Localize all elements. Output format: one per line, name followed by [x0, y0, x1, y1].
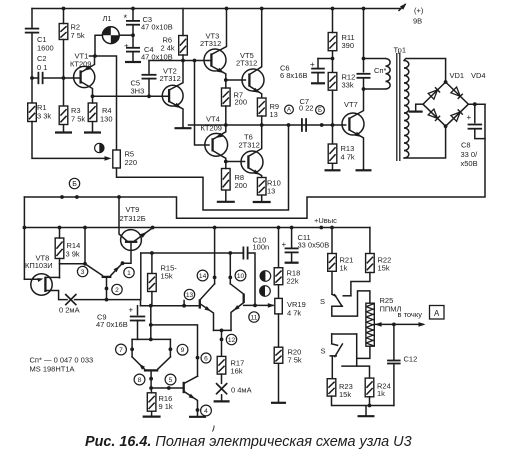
wire R18 to VR19: [278, 285, 280, 299]
junction AB line / lower feedback drop: [287, 123, 291, 127]
node R11/R12/C6: [331, 57, 335, 61]
wire switch2 right drop: [356, 334, 358, 358]
wire VT4 emitter: [213, 125, 226, 140]
svg-text:6: 6: [204, 355, 208, 362]
svg-text:13: 13: [186, 292, 194, 299]
svg-text:VT9: VT9: [126, 205, 140, 214]
junction rail / C11: [290, 226, 294, 230]
junction pin12 marker: [220, 338, 224, 342]
ground R20: [271, 363, 286, 403]
wire C10 net left drop: [140, 253, 142, 300]
transistor T6: [241, 151, 263, 173]
svg-text:Сп*: Сп*: [374, 66, 386, 75]
pin 11: [249, 312, 259, 322]
diode VD1 upper-left: [428, 87, 440, 99]
wire R14 bottom lead: [59, 259, 61, 278]
svg-text:2Т312Б: 2Т312Б: [120, 214, 146, 223]
svg-text:12: 12: [228, 337, 236, 344]
svg-text:22k: 22k: [287, 277, 299, 286]
svg-text:200: 200: [235, 98, 248, 107]
wire R24 bottom lead: [369, 397, 371, 406]
junction C8 top: [473, 102, 477, 106]
pin7 lead: [131, 339, 133, 357]
node label B mid: [316, 106, 325, 115]
pair A right emitter: [231, 303, 244, 331]
wire C3 top lead: [132, 9, 134, 21]
switch1 arm: [335, 295, 342, 307]
svg-text:0 2мА: 0 2мА: [59, 306, 80, 315]
junction rail / R21 dot: [319, 226, 323, 230]
wire C10 net y253: [141, 252, 244, 254]
svg-text:15k: 15k: [161, 272, 173, 281]
wire VT4 collector: [213, 151, 226, 162]
arrowhead pair A right emitter: [233, 305, 239, 311]
wire pin79 top bar: [132, 338, 170, 340]
pair B base bar: [144, 369, 158, 371]
wire R25 wiper out: [375, 323, 423, 325]
wire C3 to C4: [132, 25, 134, 48]
junction pin4 marker: [196, 408, 200, 412]
wire VT3 base lead: [208, 60, 211, 62]
ground output divider: [358, 406, 375, 417]
svg-text:3Н3: 3Н3: [131, 87, 145, 96]
wire R6 bottom lead: [182, 55, 184, 61]
svg-text:КТ209: КТ209: [201, 124, 222, 133]
junction AB line / R13: [331, 123, 335, 127]
trimmer mark near R5: [95, 143, 104, 152]
resistor R20: [274, 347, 283, 363]
arrowhead VT4 emitter PNP: [216, 133, 223, 138]
wire pin13 stub: [183, 301, 185, 306]
junction pin6 marker: [196, 356, 200, 360]
junction C9-drop / bar: [149, 338, 153, 342]
capacitor C9: [130, 317, 145, 321]
wire tank top to primary: [364, 58, 386, 60]
pair VT9a base bar: [102, 276, 112, 278]
junction rail / pin14 drop: [213, 226, 217, 230]
resistor R2: [59, 24, 68, 40]
wire VT2 base: [93, 95, 170, 97]
transformer Tp1 secondary winding: [404, 61, 409, 159]
wire R3 top lead: [63, 78, 65, 106]
arrowhead T6 emitter: [253, 170, 260, 175]
capacitor C1: [25, 29, 39, 33]
wire VT5 base: [226, 79, 246, 81]
ground R13: [325, 163, 341, 170]
wire to pin5 transistor: [151, 387, 184, 389]
svg-text:8: 8: [138, 377, 142, 384]
wire R25 bottom lead: [357, 346, 370, 366]
wire switch2 throw lead: [331, 334, 333, 344]
transistor VT9: [121, 230, 142, 251]
junction ground drop: [368, 404, 372, 408]
transformer Tp1 core: [397, 53, 400, 161]
junction R9-T6 / AB line: [260, 123, 264, 127]
pair A right collector: [230, 284, 243, 294]
svg-text:100n: 100n: [253, 243, 270, 252]
ground R8: [217, 190, 235, 202]
junction R6 / C5 wire: [181, 59, 185, 63]
resistor R17: [217, 356, 226, 374]
svg-text:220: 220: [125, 158, 138, 167]
wire to R24 top: [342, 366, 370, 378]
svg-text:11: 11: [251, 314, 258, 321]
ground VT2 emitter: [175, 127, 192, 129]
junction AB line / R12: [320, 123, 324, 127]
capacitor C5: [142, 75, 157, 79]
svg-text:47 0x10В: 47 0x10В: [141, 23, 173, 32]
svg-text:C12: C12: [404, 355, 418, 364]
pin 9: [177, 344, 188, 355]
wire R7 top lead: [225, 80, 227, 88]
trimmer mark 1: [260, 271, 271, 282]
wire R21 to switch1 pole: [331, 271, 333, 294]
junction C5 / VT2 base: [147, 94, 151, 98]
svg-text:1600: 1600: [37, 44, 54, 53]
transistor pin4-5 base bar: [183, 382, 185, 393]
wire pin2 stub: [106, 277, 108, 300]
wire C12 top lead: [393, 324, 395, 359]
wire VT9 emitter to rail: [135, 228, 153, 241]
junction lamp / C3-C4: [131, 33, 135, 37]
svg-text:13: 13: [270, 110, 278, 119]
svg-text:1: 1: [127, 270, 131, 277]
wire R12 bottom lead: [332, 90, 334, 125]
svg-text:6 8x16В: 6 8x16В: [280, 71, 308, 80]
svg-text:Сп* — 0 047 0 033: Сп* — 0 047 0 033: [30, 356, 94, 365]
junction pin7 marker: [130, 347, 134, 351]
capacitor C12: [387, 361, 401, 364]
junction B wire VT9 collector: [117, 195, 121, 199]
current mark 0.4mA: [216, 383, 227, 394]
wire C11 top lead: [291, 228, 293, 248]
transistor VT1: [74, 66, 95, 87]
capacitor C11: [285, 248, 299, 252]
resistor R11: [328, 33, 337, 51]
pair B right diagonal: [158, 357, 171, 369]
wire VT3 collector: [211, 9, 226, 55]
pin 10: [235, 270, 246, 281]
svg-text:390: 390: [342, 41, 355, 50]
wire pin12 lead: [221, 330, 223, 356]
pin 8: [134, 374, 145, 385]
arrowhead VT5 emitter: [253, 88, 260, 93]
wire VR19 bottom lead: [278, 314, 280, 347]
svg-text:Б: Б: [72, 181, 77, 188]
svg-text:А: А: [434, 309, 440, 318]
wire VT1 emitter node to R5: [90, 56, 117, 150]
transistor VT2: [162, 85, 183, 106]
pin 12: [226, 334, 236, 344]
junction top rail / R11: [331, 7, 335, 11]
wire bias rail y227: [24, 227, 370, 229]
svg-text:Л1: Л1: [103, 14, 112, 23]
diode VD3 lower-left: [428, 109, 440, 121]
wire R11 bottom lead: [332, 51, 334, 59]
pin 6: [201, 353, 211, 363]
junction VT9 base / pin1: [121, 261, 125, 265]
lamp L1: [102, 27, 119, 44]
wire R23-R24-C12 common: [332, 396, 394, 405]
resistor R15: [148, 274, 157, 292]
stray mark: [213, 426, 215, 432]
wire C2 to VT1 base: [43, 77, 81, 79]
svg-text:4 7k: 4 7k: [341, 153, 355, 162]
wire R2 top lead: [63, 9, 65, 24]
wire VT8 gate drop: [23, 197, 25, 279]
diode VD4 lower-right: [451, 109, 463, 121]
pair A left emitter: [200, 304, 214, 331]
wire pin6 link: [151, 325, 198, 376]
pair A left base bar: [199, 299, 201, 308]
wire C5 top lead: [148, 61, 150, 74]
arrowhead R5 wiper: [105, 156, 112, 161]
junction C10 net / pin10 drop: [228, 251, 232, 255]
svg-text:33 0/: 33 0/: [461, 150, 479, 159]
wire VT8 source lead: [45, 276, 59, 278]
wire drop to bar: [150, 306, 152, 340]
wire switch2 pole to R23: [331, 356, 333, 379]
ground C4: [125, 52, 141, 62]
pin 7: [116, 344, 127, 355]
junction wiper / C12: [392, 323, 396, 327]
node VT3 emitter / VT5 base / R7: [224, 78, 228, 82]
wire R1 bottom to R5 wiper: [32, 122, 108, 159]
wire VT3 emitter: [211, 66, 225, 80]
svg-text:4 7k: 4 7k: [287, 309, 301, 318]
junction pin2 / X wire: [105, 298, 109, 302]
wire C12 bottom lead: [393, 364, 395, 406]
arrowhead R25 wiper into body: [375, 322, 382, 327]
junction pin8 marker: [149, 377, 153, 381]
wire C8 bottom lead: [475, 129, 485, 139]
svg-text:x50В: x50В: [461, 159, 478, 168]
resistor R21: [328, 254, 337, 272]
wire secondary bottom to bridge: [404, 126, 446, 158]
junction bridge top vertex: [444, 80, 448, 84]
capacitor Cp: [357, 74, 371, 78]
wire C9 top lead: [137, 306, 139, 315]
wire T6 base: [226, 161, 245, 163]
trimmer mark 2: [260, 286, 271, 297]
junction base-R16 node: [149, 386, 153, 390]
pin1 lead: [111, 263, 123, 275]
VT9 base bar: [125, 241, 137, 243]
pair A left collector: [200, 284, 215, 300]
wire pair B base down: [150, 370, 152, 388]
svg-text:2Т312: 2Т312: [200, 39, 221, 48]
svg-text:(+): (+): [414, 6, 424, 15]
pair B left diagonal: [132, 357, 145, 369]
wire bridge right vertex to C8: [468, 103, 485, 105]
resistor R9: [257, 98, 266, 116]
svg-text:1k: 1k: [377, 389, 385, 398]
transistor VT5: [242, 69, 264, 91]
svg-text:Рис. 16.4. Полная электрическа: Рис. 16.4. Полная электрическая схема уз…: [85, 434, 412, 450]
wire pin14 drop: [214, 228, 216, 284]
junction VT1 collector / VT2 base wire: [91, 94, 95, 98]
boxed node A: [430, 306, 445, 320]
resistor R13: [328, 144, 337, 163]
arrowhead pin5 emitter: [189, 394, 196, 399]
svg-text:47 0x16В: 47 0x16В: [96, 320, 128, 329]
wire Cp bottom lead: [363, 78, 365, 89]
wire VT5 collector: [249, 9, 261, 75]
pin 14: [197, 270, 208, 281]
junction pin9 marker: [169, 347, 173, 351]
transistor VT8 JFET: [31, 274, 52, 295]
junction rail / VT9 emitter: [151, 226, 155, 230]
resistor R14: [55, 238, 64, 259]
switch2 arm: [335, 344, 343, 357]
junction pin14 marker: [213, 276, 217, 280]
capacitor C10: [243, 247, 247, 260]
junction base net / pin13: [182, 304, 186, 308]
junction emitter node / lamp lead: [93, 54, 97, 58]
junction VT4 base drop: [193, 59, 197, 63]
svg-text:+Uвыс: +Uвыс: [314, 216, 337, 225]
switch2 pole contact tick: [330, 355, 336, 357]
svg-text:2Т312: 2Т312: [236, 59, 257, 68]
pin 5: [165, 374, 176, 385]
junction R15 top: [150, 251, 154, 255]
junction tank top: [362, 57, 366, 61]
wire R15 bottom lead: [151, 292, 153, 306]
svg-text:КП103И: КП103И: [25, 261, 53, 270]
junction B wire dot2: [75, 195, 79, 199]
wire C10 right lead drop: [248, 253, 255, 305]
resistor R18: [274, 268, 283, 285]
svg-text:Б: Б: [318, 107, 322, 114]
pair A emitter bar: [214, 329, 232, 331]
ground C6: [311, 73, 325, 84]
junction tank bottom: [362, 87, 366, 91]
svg-text:VT4: VT4: [206, 115, 220, 124]
wire switch2 feed: [332, 333, 357, 335]
arrowhead VT1 emitter PNP: [84, 65, 91, 71]
resistor R4: [88, 103, 97, 122]
svg-text:7 5k: 7 5k: [288, 356, 302, 365]
terminal arrow head +9V: [400, 3, 407, 10]
wire pin10 drop: [229, 253, 231, 284]
svg-text:C8: C8: [461, 141, 471, 150]
svg-text:15k: 15k: [378, 264, 390, 273]
pin9 lead: [169, 339, 171, 357]
wire R1 top lead: [31, 78, 33, 103]
svg-text:7 5k: 7 5k: [71, 115, 85, 124]
svg-text:33 0x50В: 33 0x50В: [298, 241, 330, 250]
svg-text:33k: 33k: [342, 81, 354, 90]
arrowhead VT3 emitter: [217, 68, 224, 73]
svg-text:7: 7: [119, 347, 123, 354]
junction pin5 marker: [167, 386, 171, 390]
wire VT7 emitter: [349, 130, 363, 169]
potentiometer VR19: [275, 298, 283, 314]
wire C9 bottom lead: [137, 321, 139, 340]
ground C11: [285, 252, 299, 262]
resistor R1: [28, 103, 37, 122]
arrowhead pair A left emitter: [205, 306, 212, 311]
wire C6 branch: [318, 59, 333, 73]
wire bridge left vertex to ground: [416, 103, 423, 105]
svg-text:VD4: VD4: [471, 71, 486, 80]
arrowhead pair1 emitter: [114, 266, 120, 272]
resistor R6: [179, 36, 188, 56]
svg-text:2 4k: 2 4k: [161, 44, 175, 53]
ground R17: [214, 394, 230, 401]
wire C6 top lead: [317, 59, 319, 69]
junction pin2 marker: [105, 287, 109, 291]
svg-text:3: 3: [81, 269, 85, 276]
junction top rail / VT3 collector: [225, 7, 229, 11]
svg-text:MS 198НТ1А: MS 198НТ1А: [30, 365, 75, 374]
junction pin10 marker: [228, 276, 232, 280]
svg-text:+: +: [467, 113, 472, 122]
transistor VT4: [205, 133, 228, 156]
wire R5 bottom to feedback riser: [117, 125, 289, 210]
wire VT2 emitter: [169, 101, 183, 126]
ground R4: [84, 122, 101, 133]
wire switch1 common to R25 top: [332, 291, 370, 316]
pin3 lead: [85, 264, 102, 276]
wire VT9 collector up: [119, 197, 127, 241]
wire C2 left lead: [32, 77, 38, 79]
wire R21 top lead: [331, 228, 333, 254]
wire R6 top lead: [182, 9, 184, 36]
wire VT4 base drop: [195, 61, 210, 146]
wire pin3 drop from rail: [84, 228, 86, 264]
switch2 throw contact tick: [332, 344, 338, 346]
wire X to IC input: [75, 299, 141, 301]
wire AB line y125: [189, 124, 346, 126]
arrowhead VT7 emitter: [355, 132, 362, 137]
wire +9V top rail: [32, 8, 401, 10]
wire VT9 base down: [123, 242, 132, 263]
wire T6 emitter: [248, 168, 261, 178]
svg-text:2: 2: [115, 287, 119, 294]
svg-text:0 22: 0 22: [299, 104, 314, 113]
transformer Tp1 primary winding: [386, 59, 391, 90]
junction pin3 node: [83, 262, 87, 266]
resistor R8: [222, 169, 231, 191]
svg-text:4: 4: [204, 408, 208, 415]
svg-text:2Т312: 2Т312: [239, 141, 260, 150]
arrowhead to point A: [419, 322, 426, 327]
svg-text:3 9k: 3 9k: [66, 250, 80, 259]
svg-text:1k: 1k: [340, 264, 348, 273]
transistor VT3: [204, 49, 226, 71]
resistor R23: [327, 379, 336, 396]
capacitor C7: [302, 118, 306, 132]
resistor R12: [328, 73, 337, 91]
junction wiper line / C10: [253, 304, 257, 308]
ground R10: [253, 195, 271, 202]
junction top rail / VT5 collector: [260, 7, 264, 11]
junction pair A emitters: [220, 329, 224, 333]
wire bridge diamond: [423, 82, 468, 126]
pin 3: [77, 266, 87, 276]
wire VT2 collector: [169, 61, 183, 91]
svg-text:0 4мА: 0 4мА: [231, 386, 252, 395]
arrowhead VT8 gate: [37, 278, 43, 282]
junction B wire dot1: [60, 195, 64, 199]
pin 2: [112, 284, 122, 294]
junction top rail / R2: [62, 7, 66, 11]
node label B: [69, 178, 79, 188]
ground pin4 emitter: [189, 415, 206, 418]
node C1/C2/R1: [30, 76, 34, 80]
resistor R24: [365, 378, 374, 397]
